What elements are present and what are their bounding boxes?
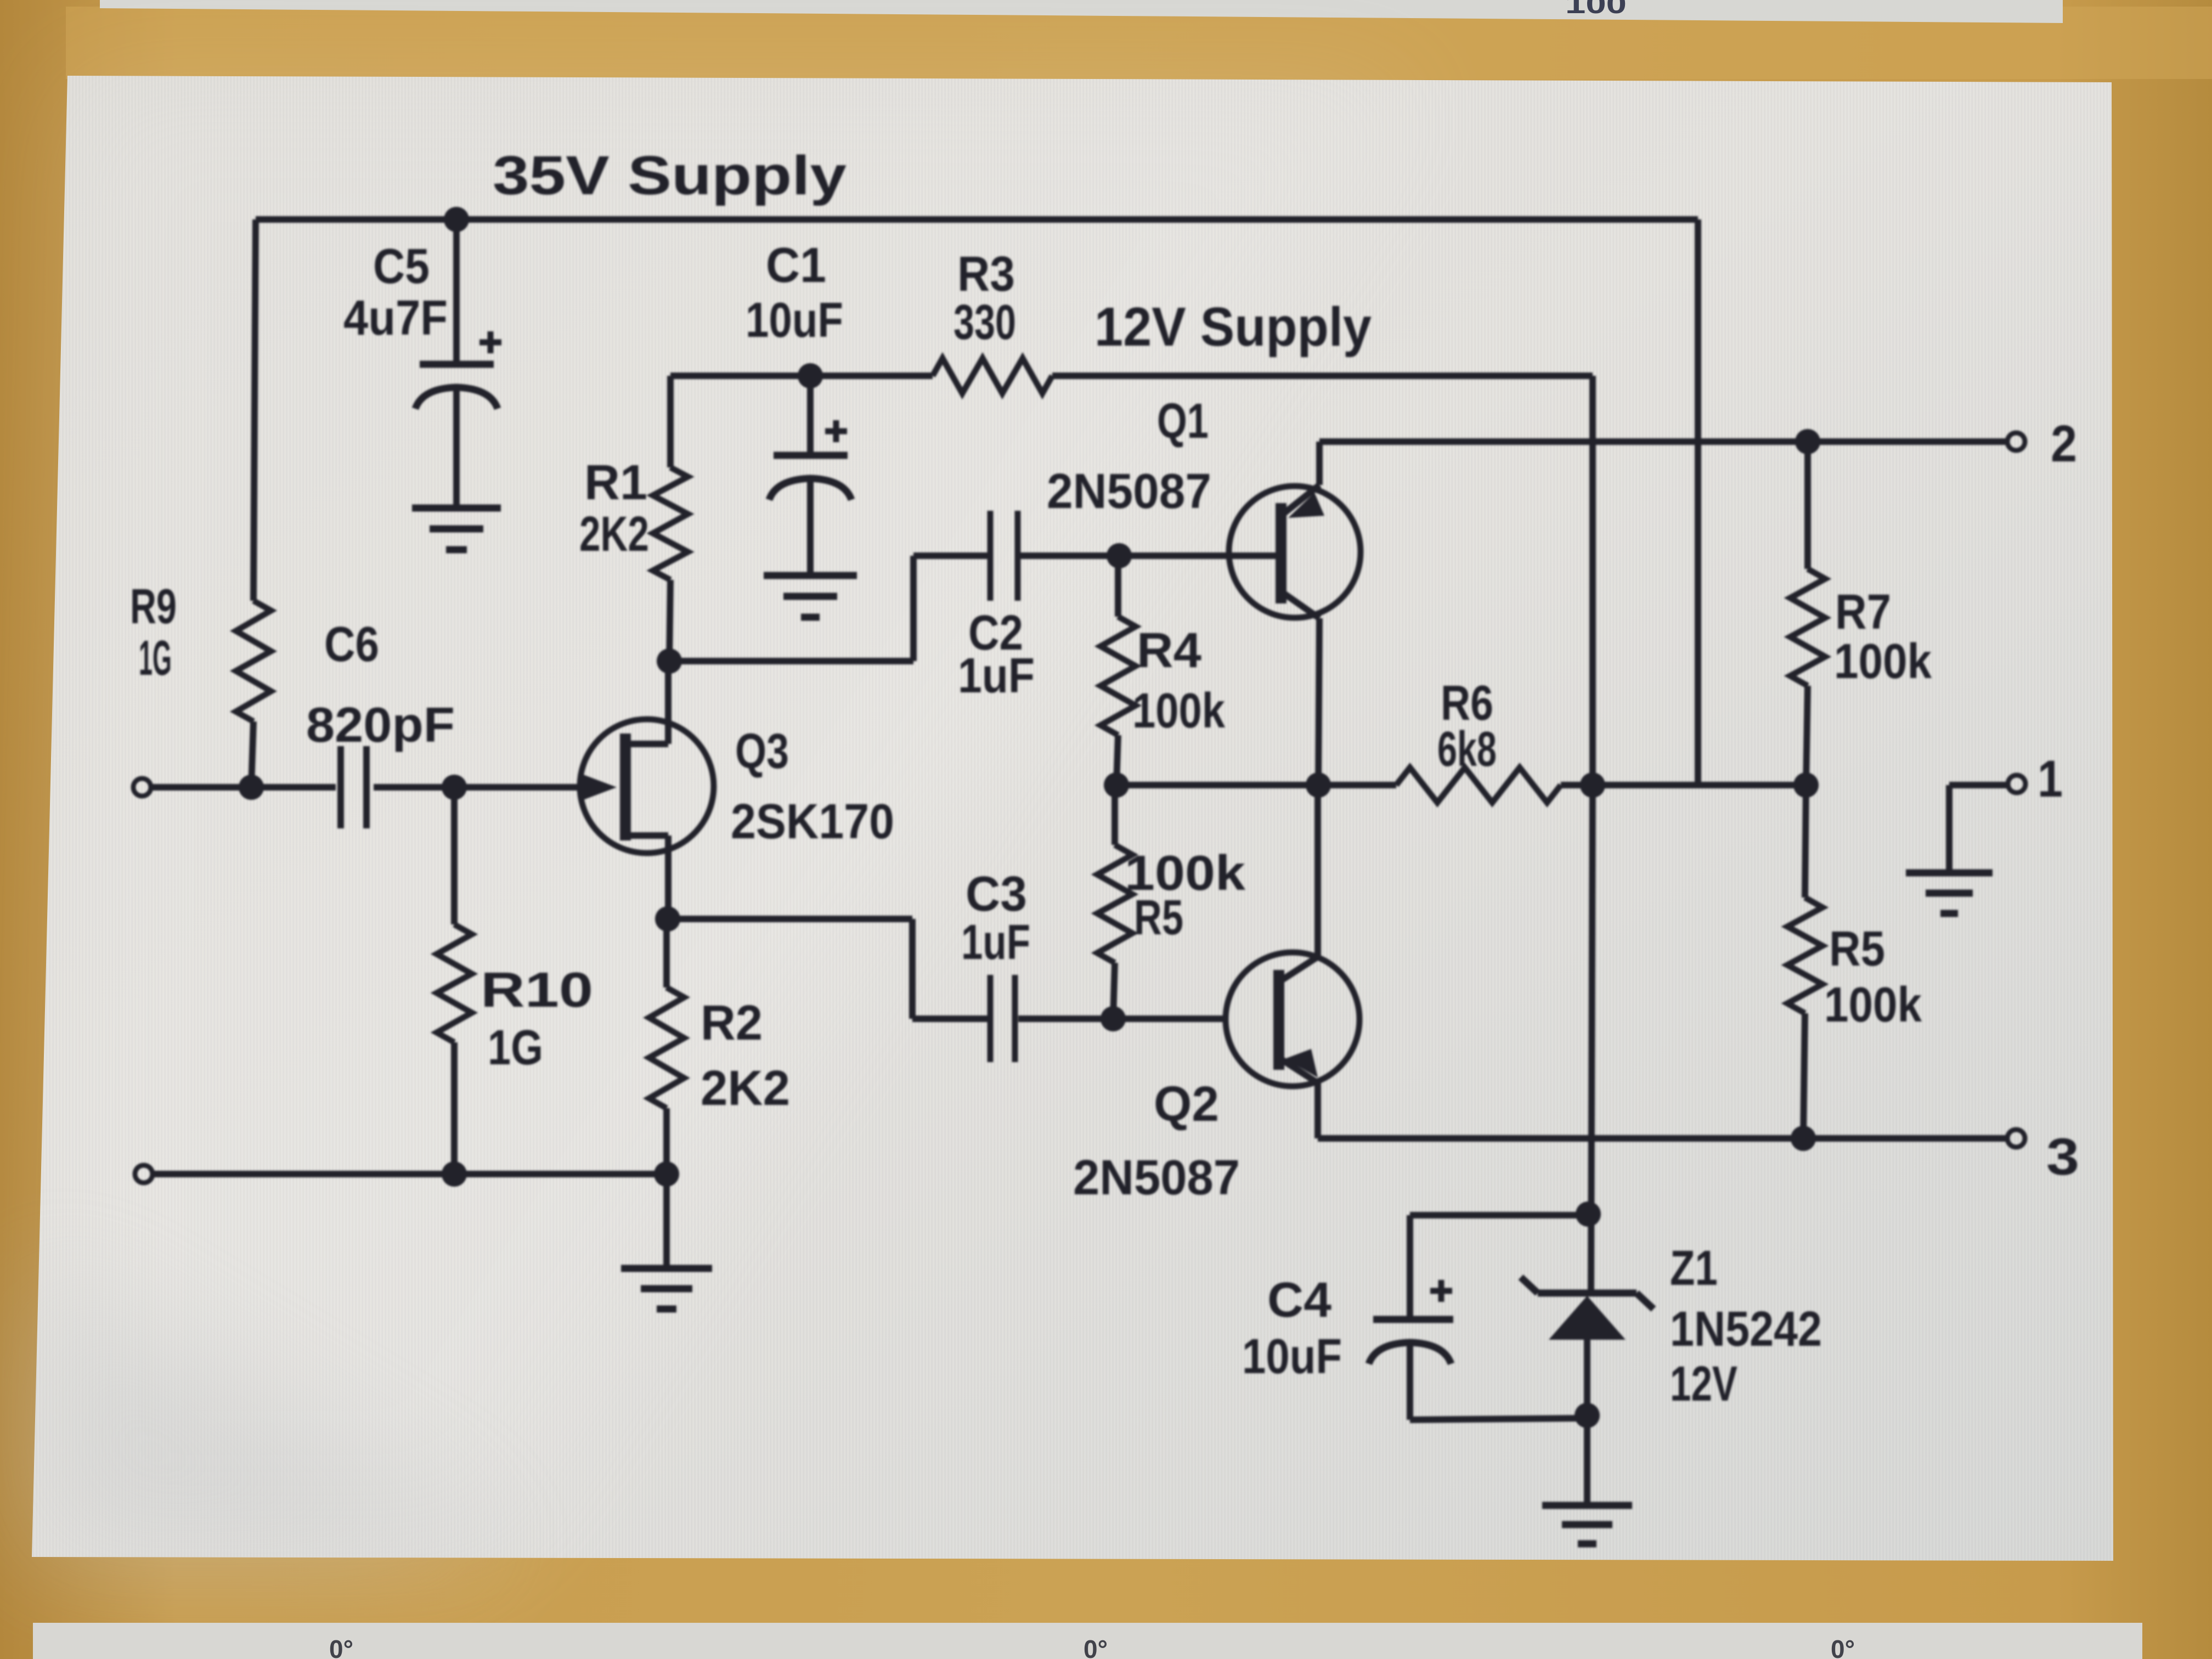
node: R10 tap xyxy=(442,775,467,800)
capacitor C5 4u7F (polarized, to ground) xyxy=(453,219,460,364)
node: C4 top tap xyxy=(1576,1201,1601,1227)
wire: C6 to Q3 gate xyxy=(374,784,579,791)
svg-text:0°: 0° xyxy=(1831,1635,1855,1659)
svg-text:C5: C5 xyxy=(373,239,430,294)
svg-text:R5: R5 xyxy=(1829,922,1885,977)
svg-text:820pF: 820pF xyxy=(306,698,455,753)
node: C5 tap on 35V rail xyxy=(444,207,469,232)
wire: input to C6 xyxy=(151,784,336,791)
svg-text:10uF: 10uF xyxy=(1242,1329,1342,1384)
capacitor C1 10uF (polarized, to ground) xyxy=(807,376,814,455)
svg-text:2SK170: 2SK170 xyxy=(731,794,894,849)
svg-text:C3: C3 xyxy=(966,867,1027,922)
transistor Q2 2N5087 (PNP) xyxy=(1226,952,1359,1086)
output terminal 3 xyxy=(2007,1130,2025,1147)
svg-text:100k: 100k xyxy=(1132,684,1226,738)
wire: C2 to Q1 base xyxy=(1020,552,1276,559)
node: R2 bottom / ground stub xyxy=(654,1161,679,1187)
resistor R4 100k xyxy=(1115,556,1121,617)
svg-text:2N5087: 2N5087 xyxy=(1073,1150,1240,1205)
svg-text:12V: 12V xyxy=(1670,1357,1737,1412)
ground (below C1) xyxy=(764,572,857,579)
bottom next-page strip xyxy=(33,1623,2142,1659)
input terminal (bottom left) xyxy=(135,1165,153,1183)
svg-text:1G: 1G xyxy=(488,1020,543,1075)
svg-text:R10: R10 xyxy=(481,963,593,1018)
node: 12V rail column lands xyxy=(1580,772,1605,798)
resistor R10 1G xyxy=(451,787,458,924)
svg-text:3: 3 xyxy=(2046,1128,2079,1186)
svg-text:4u7F: 4u7F xyxy=(343,291,448,346)
svg-text:2K2: 2K2 xyxy=(579,507,649,562)
ground (below R2) xyxy=(621,1265,712,1272)
svg-text:1uF: 1uF xyxy=(961,915,1030,970)
svg-text:R2: R2 xyxy=(701,996,763,1051)
resistor R1 2K2 xyxy=(667,376,674,467)
12V supply rail xyxy=(670,373,933,379)
node: R4 top / Q1 base xyxy=(1107,543,1132,568)
svg-text:Z1: Z1 xyxy=(1670,1241,1718,1296)
resistor R6 6k8 xyxy=(1396,768,1561,803)
svg-text:1G: 1G xyxy=(139,631,172,686)
svg-text:R5: R5 xyxy=(1134,890,1183,945)
svg-text:0°: 0° xyxy=(329,1635,353,1659)
svg-text:Q1: Q1 xyxy=(1157,394,1209,449)
svg-text:C6: C6 xyxy=(324,617,379,672)
svg-text:100: 100 xyxy=(1565,0,1627,19)
transistor Q3 2SK170 (JFET) xyxy=(580,719,714,853)
resistor R5 100k (divider mid) xyxy=(1111,785,1118,845)
input terminal (top left) xyxy=(133,778,151,796)
ground (terminal 1) xyxy=(1906,870,1993,877)
node: R9 joins input wire xyxy=(239,775,264,800)
mid net wire R4/R6/R7 row xyxy=(1116,782,1396,788)
bottom return wire xyxy=(153,1171,667,1177)
svg-text:C1: C1 xyxy=(766,238,826,293)
svg-text:R9: R9 xyxy=(130,579,177,634)
resistor R5 100k (right) xyxy=(1805,785,1806,898)
svg-text:1uF: 1uF xyxy=(958,648,1035,703)
svg-text:35V Supply: 35V Supply xyxy=(493,145,847,206)
node: Q1 collector / Q2 collector xyxy=(1306,772,1331,798)
wire into C2 xyxy=(913,552,988,559)
svg-text:100k: 100k xyxy=(1824,978,1922,1032)
zener diode Z1 xyxy=(1538,1290,1637,1297)
resistor R9 1G xyxy=(236,601,271,721)
capacitor C6 820pF xyxy=(337,746,344,828)
capacitor C3 1uF xyxy=(988,975,994,1062)
resistor R2 2K2 xyxy=(663,919,670,988)
svg-text:1N5242: 1N5242 xyxy=(1670,1302,1822,1357)
svg-text:10uF: 10uF xyxy=(746,293,843,348)
ground (below Z1) xyxy=(1542,1502,1632,1509)
svg-text:2K2: 2K2 xyxy=(701,1061,790,1116)
resistor R7 100k xyxy=(1804,442,1811,569)
svg-text:Q2: Q2 xyxy=(1154,1077,1219,1132)
capacitor C4 10uF (polarized) xyxy=(1410,1212,1588,1218)
ground (below C5) xyxy=(412,505,501,512)
node: C4 bottom tap xyxy=(1575,1403,1600,1428)
svg-text:R1: R1 xyxy=(584,455,647,510)
wire: drain node to C2 riser xyxy=(669,658,913,664)
svg-text:R4: R4 xyxy=(1137,623,1201,678)
page sheen xyxy=(32,76,1426,1557)
wire: left rail down to R9 xyxy=(253,219,256,601)
resistor R3 330 (in 12V rail) xyxy=(933,358,1052,393)
node: C1 tap on 12V rail xyxy=(798,363,823,388)
capacitor C2 1uF xyxy=(988,511,994,601)
node: Q3 drain / R1 bottom xyxy=(657,648,682,674)
output terminal 2 xyxy=(2007,433,2025,450)
svg-text:R3: R3 xyxy=(957,247,1015,302)
node: R7 bottom / R5 top xyxy=(1793,772,1819,798)
node: R10 bottom xyxy=(442,1161,467,1187)
transistor Q1 2N5087 (PNP) xyxy=(1229,486,1361,618)
svg-text:2N5087: 2N5087 xyxy=(1047,464,1211,519)
svg-text:6k8: 6k8 xyxy=(1437,722,1497,777)
svg-text:1: 1 xyxy=(2038,750,2063,808)
terminal 1 and ground xyxy=(1949,782,2007,788)
35V supply rail (top) xyxy=(256,216,1698,223)
wire: C3 to Q2 base xyxy=(1018,1015,1227,1022)
zener Z1 1N5242 column xyxy=(1591,785,1593,1293)
node: R4/R5 junction xyxy=(1104,772,1129,798)
svg-text:100k: 100k xyxy=(1834,634,1932,689)
svg-text:R7: R7 xyxy=(1835,585,1891,640)
node: R5 right bottom xyxy=(1791,1126,1816,1151)
node: R5 bottom / Q2 base xyxy=(1101,1006,1126,1031)
svg-text:0°: 0° xyxy=(1084,1635,1108,1659)
svg-text:2: 2 xyxy=(2051,415,2077,473)
wire: Q2 emitter to terminal 3 xyxy=(1314,1132,1321,1138)
top page-bottom strip xyxy=(100,0,2063,23)
svg-text:330: 330 xyxy=(953,295,1016,350)
svg-text:Q3: Q3 xyxy=(735,724,789,779)
svg-text:12V Supply: 12V Supply xyxy=(1094,296,1372,358)
wire: Q1 emitter to terminal 2 xyxy=(1319,438,2007,445)
wire: Q3 source to C3 xyxy=(655,906,680,932)
node: R7 top tap xyxy=(1795,429,1820,454)
svg-text:C4: C4 xyxy=(1267,1273,1331,1328)
